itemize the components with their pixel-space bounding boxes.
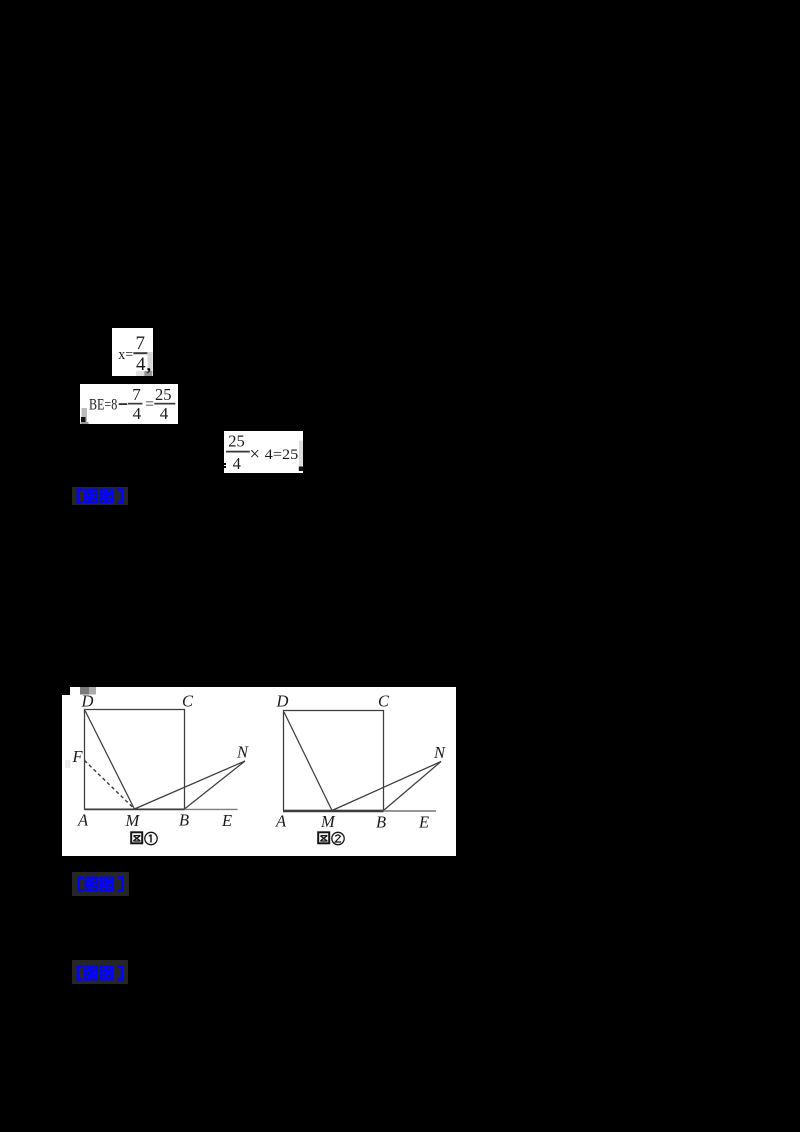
svg-text:D: D xyxy=(276,692,289,711)
svg-text:×: × xyxy=(250,445,260,465)
svg-text:4: 4 xyxy=(159,404,168,423)
svg-text:4: 4 xyxy=(132,404,141,423)
svg-text:,: , xyxy=(146,355,151,375)
svg-text:B: B xyxy=(376,813,386,832)
svg-text:M: M xyxy=(125,811,141,830)
svg-text:E: E xyxy=(418,813,429,832)
svg-text:4=25: 4=25 xyxy=(265,447,299,463)
svg-text:B: B xyxy=(179,811,189,830)
svg-text:A: A xyxy=(275,812,287,831)
svg-text:25: 25 xyxy=(155,385,172,404)
svg-text:N: N xyxy=(236,743,249,762)
svg-text:4: 4 xyxy=(233,454,241,473)
svg-text:7: 7 xyxy=(135,333,145,354)
svg-text:N: N xyxy=(433,743,446,762)
svg-text:E: E xyxy=(221,811,232,830)
svg-text:4: 4 xyxy=(136,354,146,375)
svg-text:BE=8: BE=8 xyxy=(89,397,117,414)
svg-text:7: 7 xyxy=(132,385,141,404)
svg-text:F: F xyxy=(72,747,84,766)
svg-text:C: C xyxy=(378,692,390,711)
svg-text:x=: x= xyxy=(118,347,133,363)
svg-text:=: = xyxy=(145,396,154,413)
svg-text:M: M xyxy=(320,812,336,831)
svg-text:D: D xyxy=(81,692,94,711)
svg-text:C: C xyxy=(182,692,194,711)
svg-text:25: 25 xyxy=(228,431,245,450)
svg-text:A: A xyxy=(77,811,89,830)
